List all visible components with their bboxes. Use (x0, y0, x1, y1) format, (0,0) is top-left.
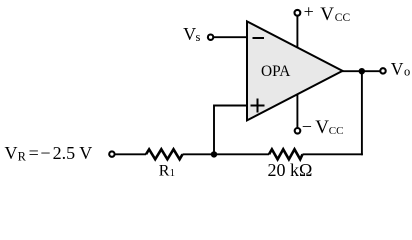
svg-text:+: + (304, 1, 314, 21)
svg-text:20 kΩ: 20 kΩ (268, 160, 313, 180)
svg-text:V: V (79, 143, 92, 163)
svg-text:=: = (29, 143, 39, 163)
svg-text:R: R (159, 163, 170, 180)
svg-text:V: V (320, 4, 334, 25)
svg-text:CC: CC (329, 125, 344, 137)
svg-text:−: − (302, 117, 312, 137)
svg-text:V: V (391, 59, 404, 79)
svg-text:o: o (404, 65, 410, 79)
svg-text:V: V (183, 24, 196, 44)
svg-text:OPA: OPA (261, 63, 290, 80)
svg-text:1: 1 (170, 168, 175, 179)
svg-text:CC: CC (335, 12, 351, 24)
svg-text:−: − (40, 143, 50, 163)
svg-text:2.5: 2.5 (53, 143, 76, 163)
svg-text:V: V (5, 143, 18, 163)
svg-text:R: R (18, 150, 27, 164)
svg-text:s: s (196, 30, 201, 44)
svg-text:V: V (315, 117, 329, 138)
